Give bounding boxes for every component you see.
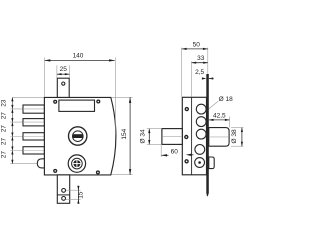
arrows on left dimension line [11, 97, 13, 163]
svg-text:27: 27 [1, 125, 8, 133]
screw top-left [54, 100, 57, 103]
svg-text:60: 60 [171, 148, 179, 155]
svg-text:Ø 38: Ø 38 [231, 129, 238, 143]
svg-text:23: 23 [1, 99, 8, 107]
svg-text:25: 25 [60, 66, 68, 73]
bolt B3 [23, 133, 44, 140]
bottom tab [57, 175, 69, 203]
hole circle 3 [196, 129, 206, 139]
screw bottom-left [54, 170, 57, 173]
top tab [57, 78, 69, 97]
latch knob on left edge [37, 159, 45, 168]
hole circle 1 [196, 104, 206, 114]
dimension Ø38 [231, 128, 244, 147]
top tab hole [62, 82, 65, 85]
label plate [59, 100, 95, 111]
bolt B1 [23, 105, 44, 113]
dimension 15 [66, 186, 85, 204]
svg-text:50: 50 [193, 41, 201, 48]
side screw 1 [185, 108, 188, 111]
dimension 25 [57, 65, 70, 78]
lock body outline [44, 97, 116, 174]
svg-text:15: 15 [78, 191, 85, 199]
dimension 42,5 [209, 112, 230, 127]
wire: left dimension vertical line [11, 97, 13, 163]
hole circle 5 with pin [195, 158, 205, 168]
label Ø18 [219, 96, 233, 103]
svg-text:27: 27 [1, 151, 8, 159]
faceplate [206, 74, 209, 196]
screw bottom-right [97, 171, 100, 174]
svg-text:2,5: 2,5 [195, 69, 204, 76]
svg-text:Ø 34: Ø 34 [140, 129, 147, 143]
bottom tab hole 2 [62, 197, 66, 201]
cylinder inner circle [73, 131, 84, 142]
svg-text:27: 27 [1, 112, 8, 120]
side screw 2 [185, 136, 188, 139]
case inner line [191, 97, 193, 175]
thumb bump [209, 157, 214, 169]
dimension Ø34 [140, 129, 162, 145]
keyhole outer circle [68, 155, 85, 172]
hole circle 2 [196, 117, 206, 127]
svg-text:33: 33 [197, 55, 205, 62]
svg-text:140: 140 [73, 53, 84, 60]
side screw 3 [185, 160, 188, 163]
bolt B4 [23, 147, 44, 154]
cylinder centerline [163, 135, 181, 137]
outside knob (right, Ø38) [209, 128, 229, 147]
dimension 60 [161, 145, 193, 157]
dimension 154 [112, 97, 133, 174]
cylinder body (left, Ø34) [162, 129, 182, 145]
bolt centerlines over bolts [23, 109, 44, 151]
leader line for Ø18 label [206, 101, 218, 111]
hole circle 4 [195, 145, 205, 155]
cylinder slot [73, 134, 83, 138]
dimension 33 [192, 55, 208, 97]
bottom tab hole 1 [62, 189, 66, 193]
dimension 50 [182, 41, 208, 96]
keyhole cross disk [73, 160, 80, 167]
wire: left dimension tick lines / bolt centerlines [10, 97, 44, 163]
dimension 140 [44, 53, 115, 135]
svg-text:42,5: 42,5 [213, 112, 226, 119]
dimension 2,5 [195, 69, 213, 80]
bolt B2 [23, 119, 44, 126]
case body [182, 97, 206, 175]
svg-text:154: 154 [121, 128, 128, 139]
bottom tab joint line [57, 194, 69, 196]
cylinder outer circle [69, 127, 87, 145]
keyhole middle circle [72, 158, 83, 169]
svg-text:Ø 18: Ø 18 [219, 96, 233, 103]
screw top-right [97, 100, 100, 103]
svg-text:27: 27 [1, 138, 8, 146]
knob centerline [210, 136, 228, 138]
